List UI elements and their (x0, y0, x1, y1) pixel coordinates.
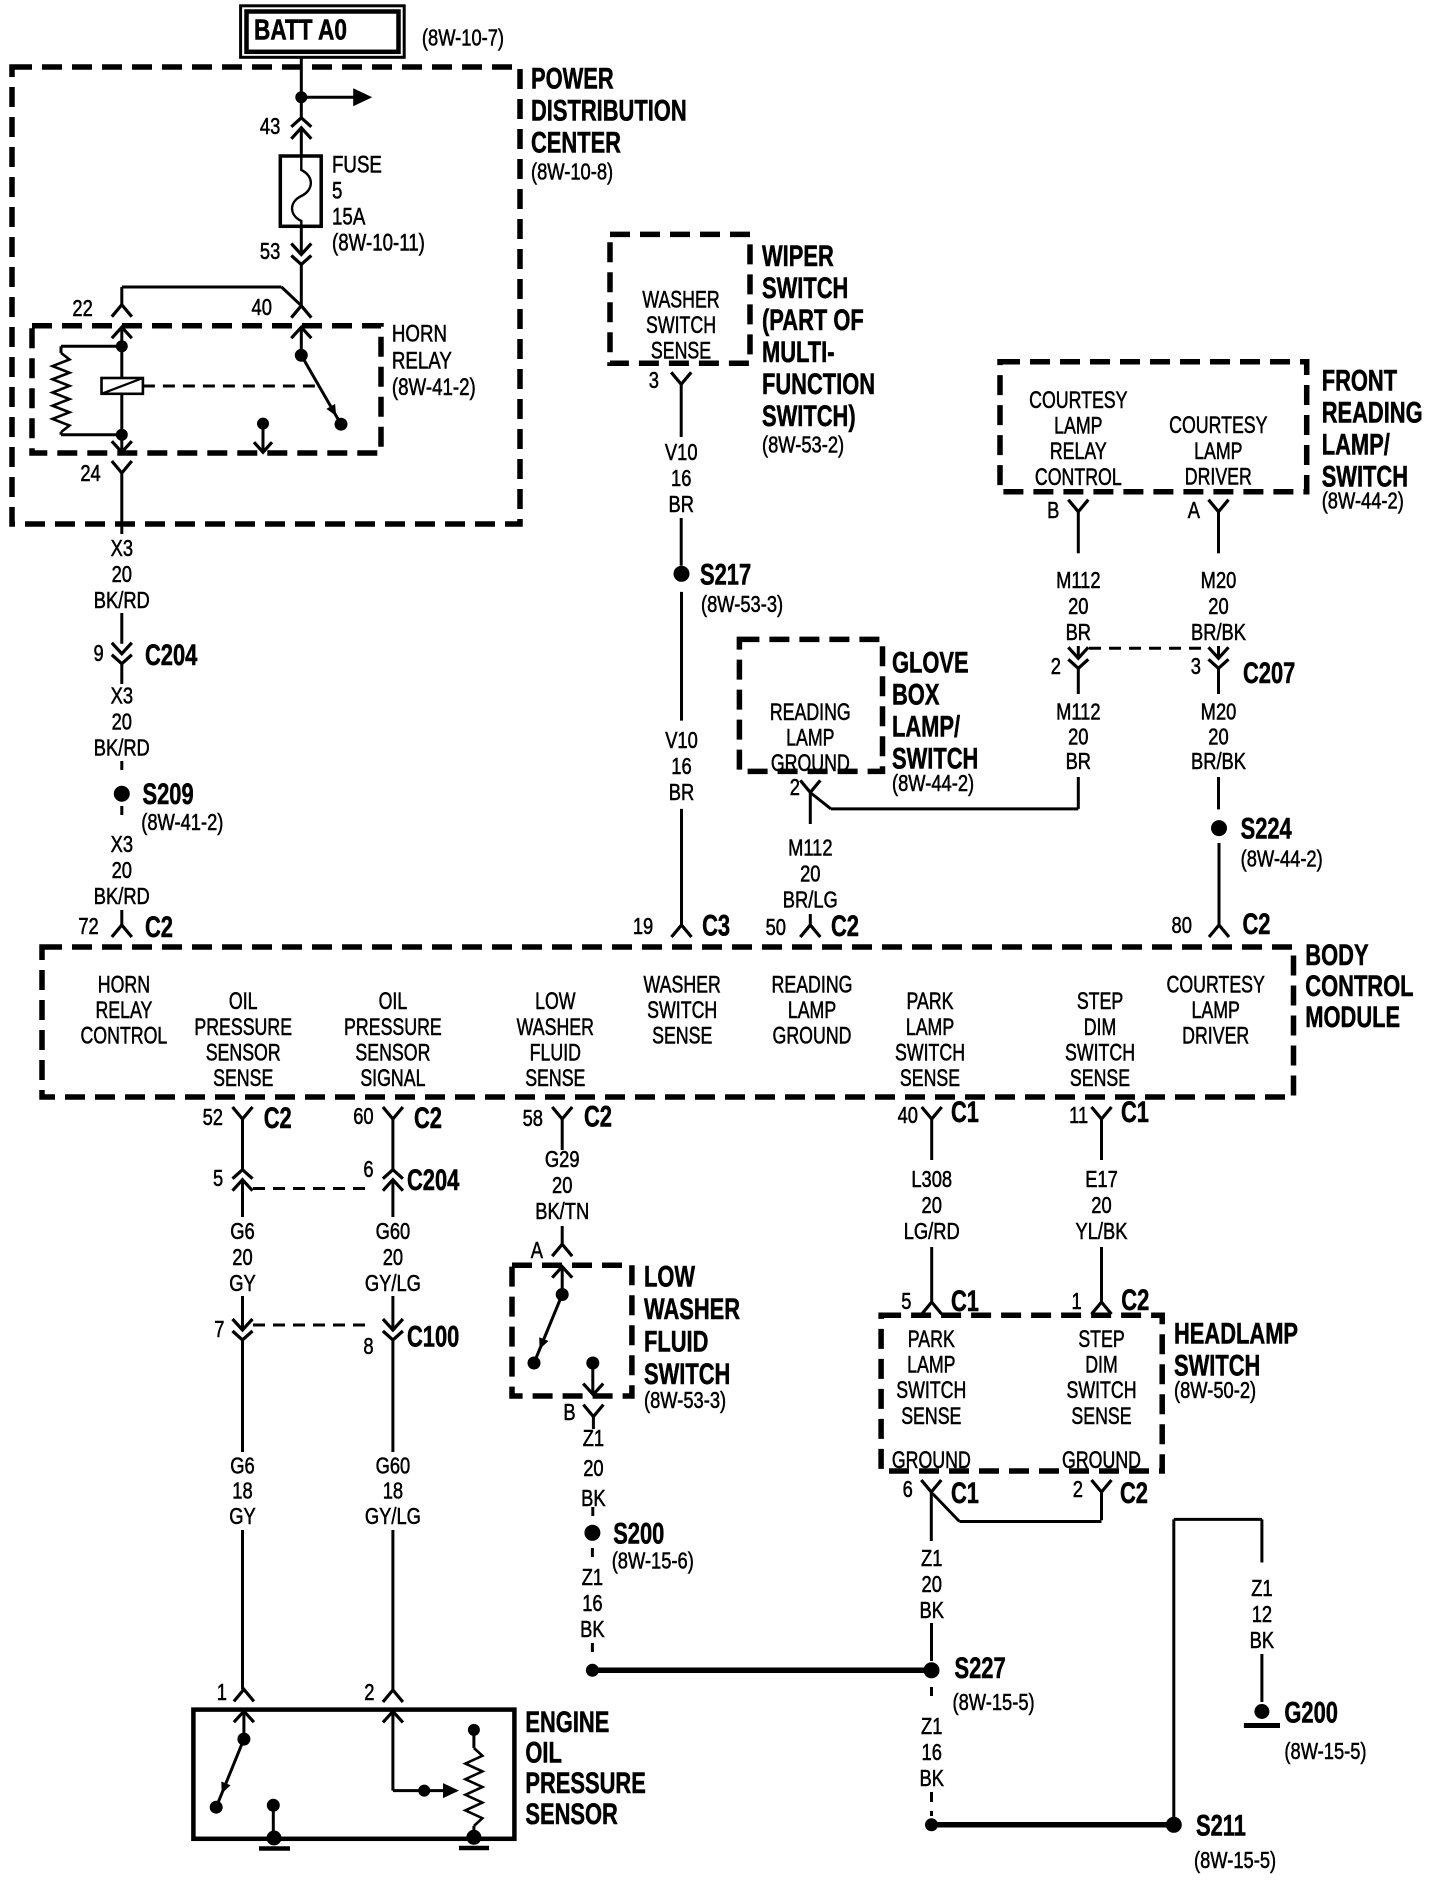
svg-text:GY/LG: GY/LG (365, 1504, 421, 1530)
svg-text:BR/BK: BR/BK (1191, 749, 1246, 775)
svg-text:WASHER: WASHER (644, 1292, 740, 1326)
svg-text:BATT A0: BATT A0 (254, 13, 347, 46)
svg-text:C207: C207 (1243, 656, 1295, 690)
svg-text:WIPER: WIPER (762, 239, 834, 273)
svg-text:20: 20 (112, 562, 132, 588)
svg-text:SWITCH: SWITCH (1066, 1378, 1136, 1404)
svg-text:LAMP/: LAMP/ (892, 709, 961, 743)
svg-text:5: 5 (901, 1289, 911, 1315)
svg-text:DRIVER: DRIVER (1185, 464, 1252, 490)
svg-text:58: 58 (523, 1106, 543, 1132)
svg-text:40: 40 (898, 1103, 918, 1129)
svg-text:(8W-44-2): (8W-44-2) (892, 771, 974, 797)
svg-text:G60: G60 (376, 1453, 411, 1479)
svg-text:(8W-44-2): (8W-44-2) (1241, 846, 1323, 872)
svg-text:SWITCH: SWITCH (647, 998, 717, 1024)
svg-text:40: 40 (252, 295, 272, 321)
svg-text:SWITCH: SWITCH (644, 1357, 730, 1391)
svg-text:DRIVER: DRIVER (1182, 1023, 1249, 1049)
svg-text:(8W-41-2): (8W-41-2) (392, 374, 476, 401)
svg-text:WASHER: WASHER (642, 287, 719, 313)
svg-text:S217: S217 (700, 557, 751, 591)
svg-text:C2: C2 (1121, 1283, 1149, 1317)
svg-text:16: 16 (922, 1740, 942, 1766)
svg-text:BR/BK: BR/BK (1191, 620, 1246, 646)
svg-text:M20: M20 (1201, 699, 1237, 725)
svg-text:DIM: DIM (1084, 1014, 1117, 1040)
svg-text:PRESSURE: PRESSURE (194, 1014, 292, 1040)
svg-text:SIGNAL: SIGNAL (360, 1066, 425, 1092)
svg-text:SENSOR: SENSOR (525, 1796, 617, 1830)
svg-text:20: 20 (922, 1193, 942, 1219)
svg-text:FUSE: FUSE (332, 151, 382, 178)
svg-text:GROUND: GROUND (1062, 1448, 1141, 1474)
svg-text:PRESSURE: PRESSURE (525, 1766, 645, 1800)
svg-text:G6: G6 (230, 1219, 254, 1245)
svg-text:PARK: PARK (906, 989, 953, 1015)
svg-text:FLUID: FLUID (644, 1324, 708, 1358)
svg-text:X3: X3 (111, 832, 133, 858)
svg-text:RELAY: RELAY (392, 347, 452, 374)
svg-text:SWITCH: SWITCH (1065, 1040, 1135, 1066)
svg-text:MULTI-: MULTI- (762, 335, 835, 369)
svg-text:COURTESY: COURTESY (1029, 388, 1127, 414)
svg-text:(8W-50-2): (8W-50-2) (1174, 1378, 1256, 1404)
svg-text:80: 80 (1172, 913, 1192, 939)
svg-text:GY: GY (229, 1271, 255, 1297)
svg-text:A: A (531, 1238, 543, 1264)
svg-text:BODY: BODY (1305, 938, 1369, 972)
svg-text:2: 2 (790, 775, 800, 801)
svg-text:C204: C204 (145, 638, 198, 672)
svg-text:BK: BK (919, 1766, 943, 1792)
svg-text:20: 20 (1208, 594, 1228, 620)
svg-text:READING: READING (1322, 395, 1423, 429)
svg-text:5: 5 (332, 177, 342, 204)
svg-text:20: 20 (583, 1456, 603, 1482)
svg-text:SENSE: SENSE (901, 1403, 961, 1429)
svg-text:RELAY: RELAY (1050, 439, 1107, 465)
svg-text:C1: C1 (951, 1476, 979, 1510)
svg-text:3: 3 (1191, 654, 1201, 680)
svg-text:V10: V10 (665, 728, 698, 754)
svg-text:9: 9 (94, 641, 104, 667)
svg-text:BR: BR (1066, 749, 1091, 775)
svg-text:1: 1 (217, 1680, 227, 1706)
svg-text:OIL: OIL (525, 1735, 561, 1769)
svg-text:SENSOR: SENSOR (355, 1040, 430, 1066)
svg-text:M112: M112 (788, 835, 832, 861)
svg-text:YL/BK: YL/BK (1076, 1219, 1128, 1245)
svg-text:SENSE: SENSE (525, 1066, 585, 1092)
svg-text:16: 16 (671, 466, 691, 492)
svg-text:(8W-53-3): (8W-53-3) (644, 1388, 726, 1414)
svg-text:SENSE: SENSE (1071, 1403, 1131, 1429)
svg-text:(PART OF: (PART OF (762, 303, 864, 337)
svg-text:E17: E17 (1085, 1167, 1118, 1193)
svg-text:1: 1 (1072, 1289, 1082, 1315)
svg-text:LAMP: LAMP (1054, 413, 1102, 439)
svg-text:BK/RD: BK/RD (94, 735, 150, 761)
svg-text:BK/RD: BK/RD (94, 884, 150, 910)
svg-text:V10: V10 (665, 440, 698, 466)
svg-text:15A: 15A (332, 203, 366, 230)
svg-text:GY: GY (229, 1504, 255, 1530)
svg-text:FRONT: FRONT (1322, 363, 1397, 397)
svg-text:(8W-15-6): (8W-15-6) (612, 1548, 694, 1574)
svg-text:GLOVE: GLOVE (892, 645, 969, 679)
svg-text:3: 3 (649, 368, 659, 394)
svg-text:2: 2 (1073, 1477, 1083, 1503)
svg-text:20: 20 (1068, 724, 1088, 750)
svg-text:50: 50 (766, 915, 786, 941)
svg-text:2: 2 (364, 1680, 374, 1706)
svg-text:53: 53 (260, 239, 280, 265)
svg-text:12: 12 (1252, 1602, 1272, 1628)
svg-text:DISTRIBUTION: DISTRIBUTION (531, 93, 687, 127)
svg-text:60: 60 (353, 1104, 373, 1130)
svg-text:6: 6 (903, 1477, 913, 1503)
svg-text:11: 11 (1069, 1103, 1088, 1129)
svg-text:M20: M20 (1201, 568, 1237, 594)
svg-text:S209: S209 (143, 777, 194, 811)
svg-text:STEP: STEP (1078, 1327, 1124, 1353)
svg-text:LAMP: LAMP (788, 998, 836, 1024)
svg-text:SWITCH): SWITCH) (762, 399, 856, 433)
svg-text:LAMP: LAMP (1194, 438, 1242, 464)
svg-text:GROUND: GROUND (773, 1023, 852, 1049)
svg-text:C2: C2 (831, 909, 859, 943)
svg-text:(8W-10-8): (8W-10-8) (531, 159, 613, 185)
svg-text:LOW: LOW (535, 989, 576, 1015)
svg-text:G200: G200 (1284, 1695, 1338, 1729)
svg-text:SWITCH: SWITCH (896, 1378, 966, 1404)
svg-text:19: 19 (633, 914, 653, 940)
svg-text:20: 20 (112, 709, 132, 735)
svg-text:GROUND: GROUND (771, 751, 850, 777)
svg-text:20: 20 (1068, 594, 1088, 620)
svg-text:SENSE: SENSE (652, 1023, 712, 1049)
svg-text:BR: BR (669, 780, 694, 806)
svg-text:20: 20 (112, 858, 132, 884)
svg-text:HEADLAMP: HEADLAMP (1174, 1316, 1298, 1350)
svg-text:M112: M112 (1056, 699, 1100, 725)
svg-text:C1: C1 (1121, 1095, 1149, 1129)
svg-text:72: 72 (78, 914, 98, 940)
svg-text:LG/RD: LG/RD (904, 1219, 960, 1245)
svg-text:C2: C2 (1120, 1476, 1148, 1510)
svg-text:CONTROL: CONTROL (1035, 464, 1122, 490)
svg-text:20: 20 (1208, 724, 1228, 750)
svg-text:6: 6 (363, 1157, 373, 1183)
svg-text:BK/TN: BK/TN (535, 1199, 589, 1225)
svg-text:SWITCH: SWITCH (762, 271, 848, 305)
svg-text:BK: BK (580, 1617, 604, 1643)
svg-text:HORN: HORN (98, 972, 150, 998)
svg-text:(8W-10-11): (8W-10-11) (332, 229, 425, 256)
svg-text:16: 16 (582, 1591, 602, 1617)
svg-text:S200: S200 (613, 1516, 664, 1550)
svg-text:20: 20 (1091, 1193, 1111, 1219)
svg-text:FUNCTION: FUNCTION (762, 367, 875, 401)
svg-text:X3: X3 (111, 536, 133, 562)
svg-text:READING: READING (772, 972, 853, 998)
svg-text:BK: BK (1250, 1628, 1274, 1654)
svg-text:C2: C2 (264, 1101, 292, 1135)
svg-text:GROUND: GROUND (892, 1448, 971, 1474)
svg-text:(8W-44-2): (8W-44-2) (1322, 488, 1404, 514)
svg-text:Z1: Z1 (582, 1565, 603, 1591)
svg-text:2: 2 (1051, 654, 1061, 680)
svg-text:5: 5 (213, 1166, 223, 1192)
svg-text:G60: G60 (376, 1219, 411, 1245)
svg-text:PRESSURE: PRESSURE (344, 1014, 442, 1040)
svg-text:CONTROL: CONTROL (1305, 969, 1413, 1003)
svg-text:BR/LG: BR/LG (783, 887, 838, 913)
svg-text:SWITCH: SWITCH (895, 1040, 965, 1066)
svg-text:(8W-15-5): (8W-15-5) (953, 1690, 1035, 1716)
svg-text:20: 20 (232, 1245, 252, 1271)
svg-text:Z1: Z1 (921, 1546, 942, 1572)
svg-text:(8W-10-7): (8W-10-7) (422, 25, 504, 51)
svg-text:HORN: HORN (392, 320, 447, 347)
svg-text:DIM: DIM (1085, 1352, 1118, 1378)
svg-text:SENSE: SENSE (651, 338, 711, 364)
svg-text:S227: S227 (955, 1651, 1006, 1685)
svg-text:SENSE: SENSE (213, 1066, 273, 1092)
svg-text:OIL: OIL (229, 989, 258, 1015)
svg-text:G29: G29 (545, 1147, 580, 1173)
svg-text:18: 18 (232, 1479, 252, 1505)
svg-text:ENGINE: ENGINE (525, 1705, 609, 1739)
svg-text:BOX: BOX (892, 677, 940, 711)
svg-text:LOW: LOW (644, 1259, 695, 1293)
svg-text:CENTER: CENTER (531, 125, 621, 159)
svg-text:18: 18 (383, 1479, 403, 1505)
svg-text:B: B (563, 1400, 575, 1426)
svg-text:BR: BR (668, 492, 693, 518)
svg-text:BK: BK (919, 1598, 943, 1624)
svg-text:C100: C100 (407, 1319, 459, 1353)
svg-text:SENSOR: SENSOR (206, 1040, 281, 1066)
svg-text:LAMP: LAMP (906, 1014, 954, 1040)
svg-text:20: 20 (800, 861, 820, 887)
svg-text:LAMP/: LAMP/ (1322, 427, 1391, 461)
svg-text:(8W-15-5): (8W-15-5) (1194, 1848, 1276, 1874)
svg-text:A: A (1188, 498, 1200, 524)
svg-text:WASHER: WASHER (644, 972, 721, 998)
svg-text:43: 43 (260, 114, 280, 140)
svg-text:C2: C2 (414, 1101, 442, 1135)
svg-text:Z1: Z1 (583, 1426, 604, 1452)
svg-text:7: 7 (214, 1317, 224, 1343)
svg-text:22: 22 (72, 296, 92, 322)
svg-text:WASHER: WASHER (517, 1014, 594, 1040)
svg-text:B: B (1047, 498, 1059, 524)
svg-text:G6: G6 (230, 1453, 254, 1479)
svg-text:Z1: Z1 (1251, 1576, 1272, 1602)
svg-text:24: 24 (80, 461, 101, 487)
svg-text:LAMP: LAMP (786, 725, 834, 751)
svg-text:C2: C2 (584, 1099, 612, 1133)
svg-text:(8W-41-2): (8W-41-2) (141, 810, 223, 836)
svg-text:20: 20 (552, 1173, 572, 1199)
svg-text:FLUID: FLUID (530, 1040, 581, 1066)
svg-text:C2: C2 (145, 910, 173, 944)
svg-text:C3: C3 (702, 908, 730, 942)
svg-text:RELAY: RELAY (95, 998, 152, 1024)
svg-text:SENSE: SENSE (1070, 1066, 1130, 1092)
svg-text:52: 52 (203, 1105, 223, 1131)
svg-text:LAMP: LAMP (1192, 998, 1240, 1024)
svg-text:20: 20 (922, 1572, 942, 1598)
svg-text:SWITCH: SWITCH (646, 313, 716, 339)
svg-text:C1: C1 (951, 1095, 979, 1129)
svg-text:C204: C204 (407, 1163, 460, 1197)
svg-text:SENSE: SENSE (900, 1066, 960, 1092)
svg-text:OIL: OIL (379, 989, 408, 1015)
svg-text:S211: S211 (1196, 1808, 1246, 1842)
svg-text:LAMP: LAMP (907, 1352, 955, 1378)
svg-text:BK/RD: BK/RD (94, 588, 150, 614)
svg-text:X3: X3 (111, 683, 133, 709)
svg-text:COURTESY: COURTESY (1169, 413, 1267, 439)
svg-text:GY/LG: GY/LG (365, 1271, 421, 1297)
svg-text:COURTESY: COURTESY (1167, 972, 1265, 998)
svg-text:READING: READING (770, 700, 851, 726)
svg-text:M112: M112 (1056, 568, 1100, 594)
svg-text:(8W-53-3): (8W-53-3) (701, 592, 783, 618)
svg-text:L308: L308 (911, 1167, 952, 1193)
svg-text:CONTROL: CONTROL (80, 1023, 167, 1049)
svg-text:(8W-15-5): (8W-15-5) (1284, 1739, 1366, 1765)
svg-text:Z1: Z1 (921, 1714, 942, 1740)
svg-text:BR: BR (1066, 620, 1091, 646)
svg-text:(8W-53-2): (8W-53-2) (762, 432, 844, 458)
svg-text:16: 16 (671, 754, 691, 780)
svg-text:S224: S224 (1241, 811, 1292, 845)
svg-text:POWER: POWER (531, 61, 614, 95)
svg-text:8: 8 (363, 1334, 373, 1360)
svg-text:C2: C2 (1243, 907, 1271, 941)
svg-text:STEP: STEP (1077, 989, 1123, 1015)
svg-text:PARK: PARK (908, 1327, 955, 1353)
svg-text:20: 20 (383, 1245, 403, 1271)
svg-text:MODULE: MODULE (1305, 1000, 1400, 1034)
